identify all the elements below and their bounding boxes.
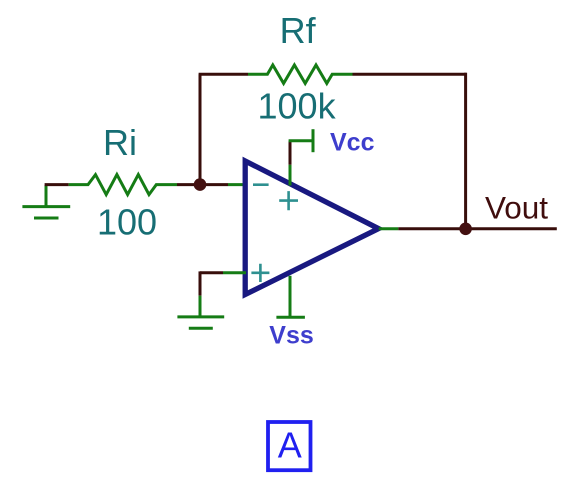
wire down to GND2 [199,271,202,295]
wire feedback right vertical [464,73,467,229]
svg-text:100k: 100k [258,86,337,127]
node junction at output [459,223,472,236]
wire from GND1 to Ri [45,183,69,186]
svg-text:A: A [278,425,302,466]
annotation box A [268,422,311,470]
svg-text:100: 100 [97,201,157,242]
resistor Rf [248,65,353,83]
svg-text:Vout: Vout [485,190,548,226]
ground GND2 (non-inverting input ground) [177,296,224,329]
op-amp minus marking [253,183,269,186]
ground GND1 (left input ground) [22,185,70,218]
wire feedback top right segment [353,73,467,76]
svg-text:Rf: Rf [280,10,317,51]
wire from lower-left corner to non-inverting input [200,271,223,274]
node junction at inverting input [194,178,207,191]
power Vcc symbol [289,129,313,152]
op-amp U1 [245,161,378,295]
wire feedback top left segment [199,73,248,76]
svg-text:Vss: Vss [269,322,313,350]
wire Ri to node [177,183,195,186]
op-amp plus marking (lower, non-inverting input) [251,264,269,282]
resistor Ri [69,175,177,195]
op-amp Vss pin stub and power Vss symbol [276,276,305,318]
op-amp output pin stub [379,227,399,230]
wire node A to op-amp inverting input [200,183,228,186]
wire Vcc [289,141,292,165]
svg-text:Vcc: Vcc [330,129,375,157]
op-amp plus marking (upper) [279,191,298,210]
op-amp Vcc pin stub [289,165,292,186]
wire feedback left vertical [199,74,202,184]
svg-text:Ri: Ri [103,122,137,163]
wire output to Vout [398,227,557,230]
